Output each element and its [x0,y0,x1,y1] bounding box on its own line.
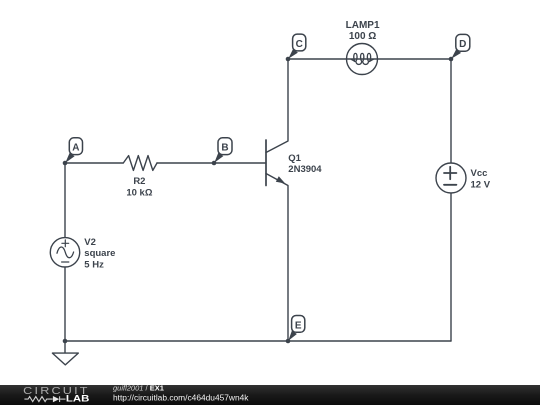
svg-text:B: B [221,143,228,154]
svg-text:C: C [296,39,303,50]
svg-text:square: square [84,248,115,259]
svg-text:5 Hz: 5 Hz [84,259,104,270]
svg-text:100 Ω: 100 Ω [349,31,376,42]
svg-text:Vcc: Vcc [471,168,488,179]
svg-text:LAB: LAB [66,394,90,404]
svg-text:D: D [459,39,466,50]
svg-text:Q1: Q1 [288,153,301,164]
svg-text:LAMP1: LAMP1 [346,20,380,31]
svg-text:V2: V2 [84,237,96,248]
svg-text:http://circuitlab.com/c464du45: http://circuitlab.com/c464du457wn4k [113,393,249,403]
svg-text:2N3904: 2N3904 [288,164,322,175]
svg-text:guifl2001 / EX1: guifl2001 / EX1 [113,384,164,393]
svg-text:R2: R2 [133,176,145,187]
svg-text:E: E [295,320,302,331]
svg-text:10 kΩ: 10 kΩ [126,187,152,198]
svg-text:12 V: 12 V [471,179,491,190]
svg-text:A: A [72,143,79,154]
